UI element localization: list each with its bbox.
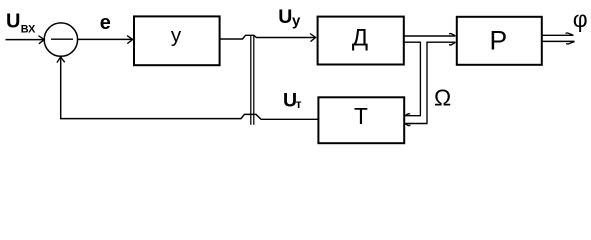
output wire top [542, 34, 573, 36]
svg-text:Д: Д [352, 24, 368, 51]
svg-text:e: e [100, 12, 111, 34]
shaft Д lower line left part [404, 41, 421, 43]
shaft Д to Р top line [404, 35, 455, 37]
arrowhead into Д [310, 34, 316, 42]
arrowhead into summer bottom [57, 57, 65, 63]
arrowhead V1 into Т (half barb above) [405, 114, 410, 116]
svg-text:Т: Т [354, 103, 368, 129]
svg-text:φ: φ [573, 6, 588, 32]
arrowhead output bottom (half barb below) [566, 42, 575, 45]
crossover vertical line 1 [250, 35, 252, 125]
wire V1 into Т [405, 115, 421, 117]
arrowhead lower into Р (half barb below) [449, 42, 455, 45]
shaft vertical V2 [426, 42, 428, 123]
wire summer to У [78, 38, 133, 40]
svg-text:U: U [6, 11, 20, 33]
summing junction [44, 23, 77, 56]
svg-text:т: т [296, 97, 302, 111]
wire Т to summer with hop and corner [61, 58, 318, 120]
svg-text:ВХ: ВХ [21, 23, 36, 35]
block Д [318, 17, 404, 65]
wire V2 into Т [405, 123, 428, 125]
arrowhead top into Р (half barb above) [449, 34, 455, 36]
minus sign [51, 38, 73, 40]
block Р [457, 17, 542, 65]
output wire bottom [542, 40, 575, 42]
block Т [318, 97, 404, 143]
svg-text:Ω: Ω [434, 85, 451, 111]
shaft vertical V1 [419, 42, 421, 116]
svg-text:у: у [171, 24, 182, 47]
svg-text:U: U [278, 6, 292, 28]
arrowhead into У [127, 36, 133, 44]
arrowhead V2 into Т (half barb below) [405, 124, 411, 126]
svg-text:Р: Р [490, 25, 508, 55]
block У [134, 16, 220, 65]
svg-text:у: у [292, 13, 301, 30]
wire input [6, 39, 45, 41]
arrowhead input into summer [39, 36, 45, 44]
wire У to Д with hop [220, 35, 315, 39]
arrowhead output top (half barb above) [566, 33, 574, 35]
shaft lower line right part [426, 41, 455, 43]
crossover vertical line 2 [253, 35, 255, 124]
